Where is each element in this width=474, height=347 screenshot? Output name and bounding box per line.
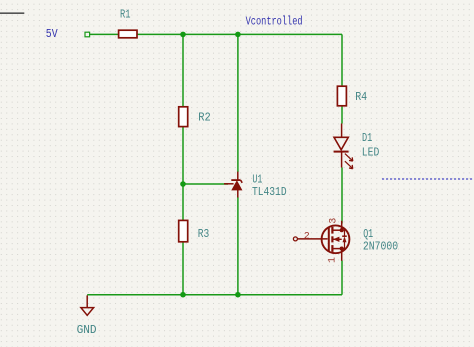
svg-text:R1: R1 (120, 9, 131, 22)
svg-text:R3: R3 (198, 228, 210, 241)
svg-text:R4: R4 (355, 91, 367, 104)
svg-text:TL431D: TL431D (252, 186, 287, 199)
svg-text:GND: GND (77, 324, 97, 337)
svg-text:3: 3 (328, 218, 339, 224)
svg-text:2N7000: 2N7000 (363, 241, 398, 254)
svg-text:2: 2 (304, 232, 310, 243)
svg-text:R2: R2 (198, 112, 211, 125)
svg-text:LED: LED (362, 146, 380, 159)
svg-text:D1: D1 (362, 132, 372, 145)
svg-text:5V: 5V (46, 27, 58, 41)
svg-text:U1: U1 (252, 173, 262, 186)
svg-text:Q1: Q1 (363, 228, 373, 241)
svg-text:Vcontrolled: Vcontrolled (246, 16, 303, 29)
svg-text:1: 1 (328, 257, 339, 263)
